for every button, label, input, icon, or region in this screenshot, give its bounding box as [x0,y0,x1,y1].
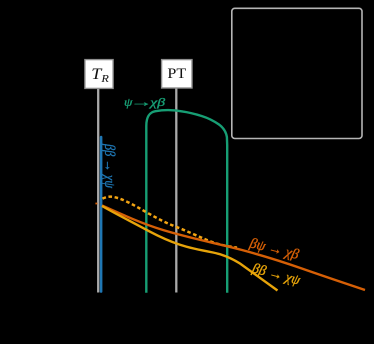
gray vertical line under T_R box [97,88,99,293]
gray vertical line under PT box [175,88,177,293]
legend box (empty) [232,8,362,138]
svg-text:χβ: χβ [149,95,165,109]
T_R label box [85,60,113,89]
solid mustard line [102,206,278,291]
dashed golden line (with initial hump) [103,197,238,248]
green plateau curve [146,110,227,293]
svg-text:ββ → χψ: ββ → χψ [101,143,117,188]
solid dark orange line [102,206,365,291]
PT label box [162,60,192,88]
stray orange dot left of blue line [95,203,97,205]
blue vertical line at T_R [100,137,103,292]
svg-text:PT: PT [167,66,186,82]
svg-text:→: → [130,95,152,108]
